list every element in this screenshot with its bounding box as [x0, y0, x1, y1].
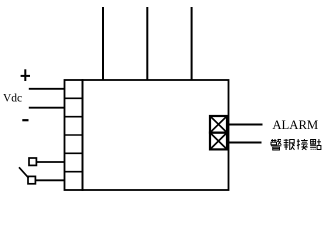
svg-text:Vdc: Vdc: [3, 93, 22, 105]
svg-text:ALARM: ALARM: [272, 118, 318, 132]
